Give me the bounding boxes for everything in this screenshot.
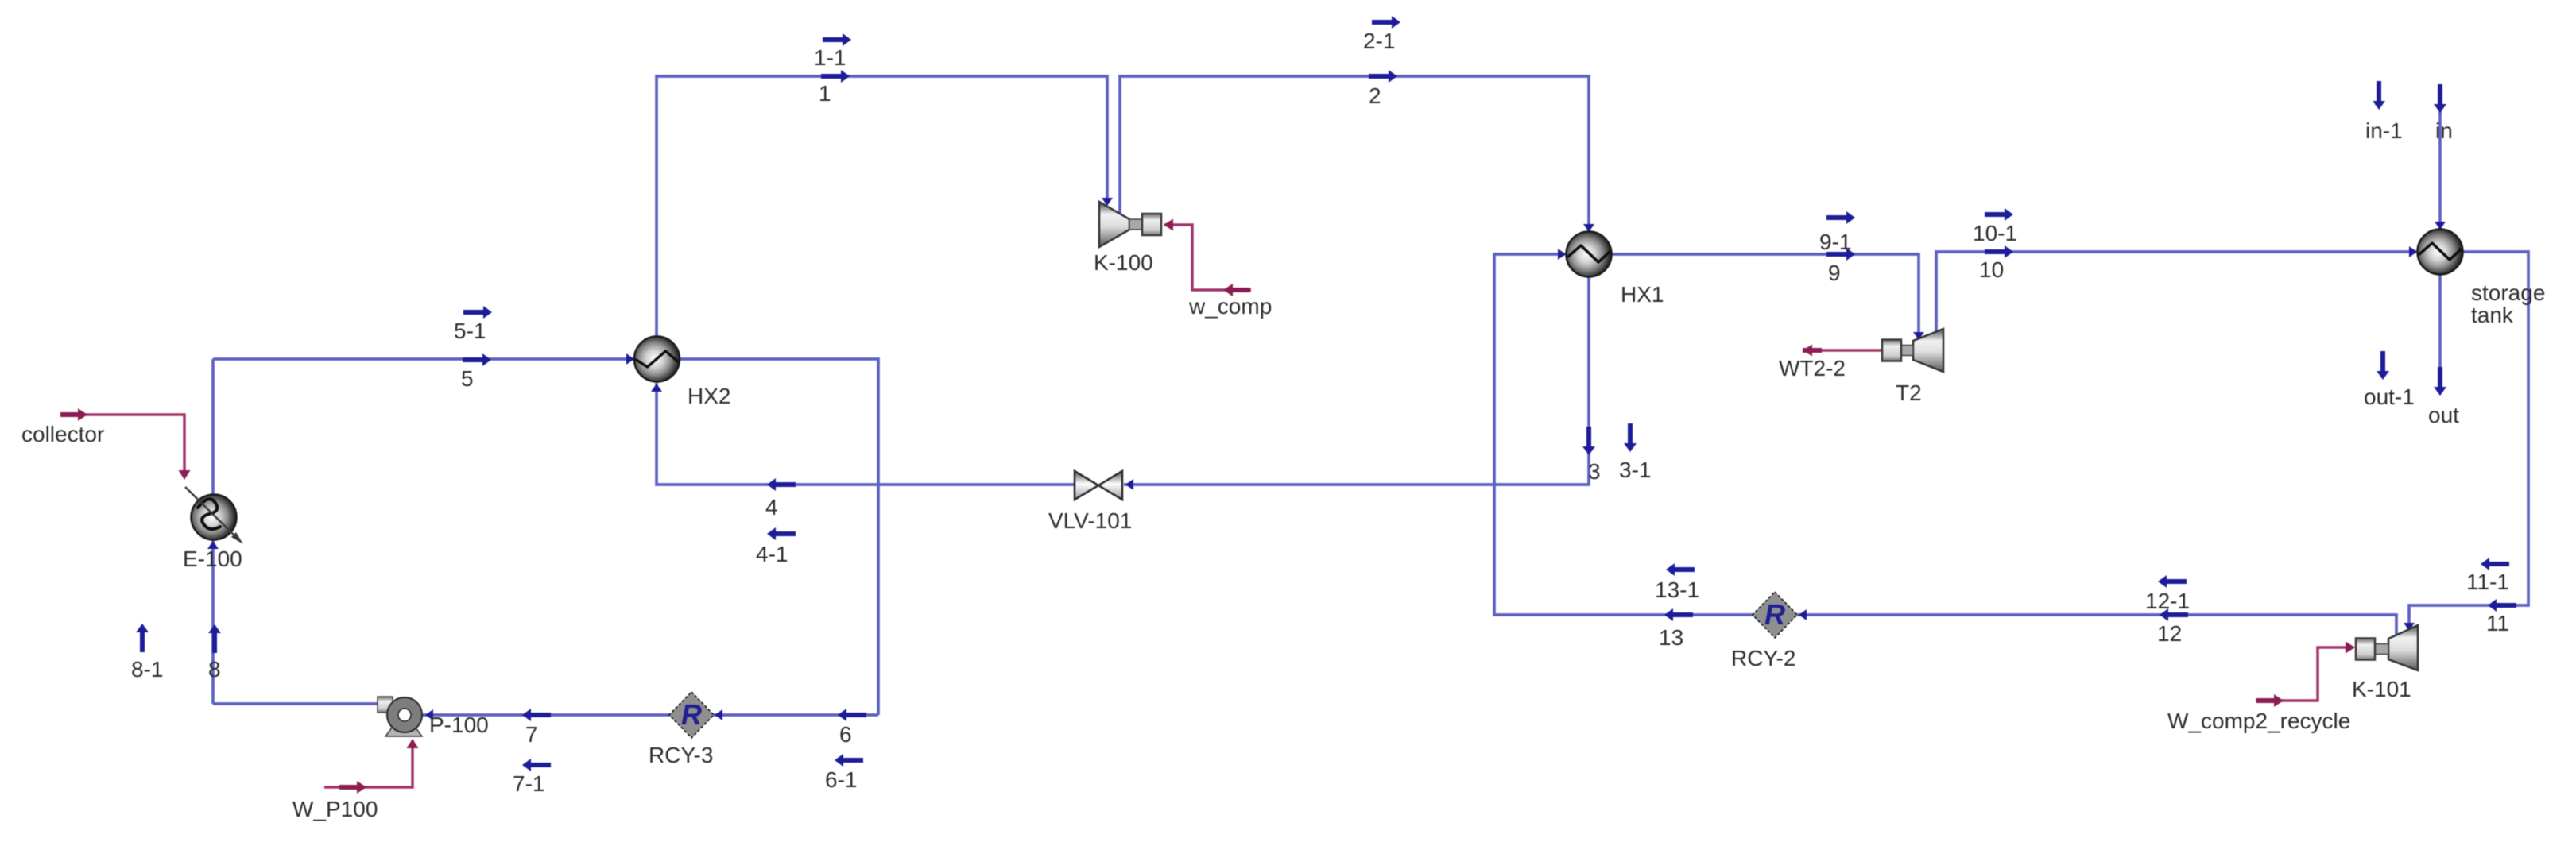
svg-text:11-1: 11-1 <box>2466 570 2509 594</box>
svg-text:P-100: P-100 <box>429 713 489 737</box>
svg-text:3-1: 3-1 <box>1619 458 1651 482</box>
svg-text:13-1: 13-1 <box>1655 578 1699 602</box>
svg-text:storage: storage <box>2471 280 2545 305</box>
svg-text:out: out <box>2428 403 2459 427</box>
svg-text:1-1: 1-1 <box>814 45 846 70</box>
svg-text:10: 10 <box>1979 257 2004 282</box>
svg-text:W_comp2_recycle: W_comp2_recycle <box>2167 709 2350 733</box>
svg-text:WT2-2: WT2-2 <box>1779 356 1846 381</box>
svg-text:2-1: 2-1 <box>1363 29 1395 53</box>
svg-text:K-100: K-100 <box>1094 250 1153 275</box>
svg-text:13: 13 <box>1659 625 1683 650</box>
svg-text:10-1: 10-1 <box>1973 221 2017 245</box>
svg-text:RCY-2: RCY-2 <box>1731 646 1795 670</box>
svg-text:7-1: 7-1 <box>513 771 544 796</box>
svg-text:R: R <box>1764 598 1785 631</box>
svg-text:1: 1 <box>819 81 831 106</box>
svg-text:in: in <box>2435 118 2453 143</box>
svg-text:12-1: 12-1 <box>2145 589 2190 613</box>
svg-text:12: 12 <box>2157 621 2182 646</box>
svg-text:K-101: K-101 <box>2352 677 2411 701</box>
svg-text:6: 6 <box>839 722 852 747</box>
svg-text:4: 4 <box>765 495 778 520</box>
svg-text:HX1: HX1 <box>1621 282 1664 307</box>
svg-text:2: 2 <box>1369 83 1381 108</box>
svg-text:6-1: 6-1 <box>825 767 857 792</box>
svg-text:E-100: E-100 <box>183 547 242 571</box>
svg-text:HX2: HX2 <box>688 384 730 408</box>
svg-text:4-1: 4-1 <box>756 542 788 566</box>
svg-text:RCY-3: RCY-3 <box>649 743 713 767</box>
svg-text:7: 7 <box>525 722 538 747</box>
svg-text:9: 9 <box>1828 261 1841 285</box>
svg-text:out-1: out-1 <box>2364 384 2415 409</box>
svg-text:W_P100: W_P100 <box>292 797 378 821</box>
svg-text:8: 8 <box>208 657 221 682</box>
svg-text:11: 11 <box>2486 611 2509 635</box>
svg-text:R: R <box>681 698 702 731</box>
svg-text:5: 5 <box>461 366 474 391</box>
svg-text:5-1: 5-1 <box>454 319 486 343</box>
svg-text:tank: tank <box>2471 303 2514 327</box>
svg-text:3: 3 <box>1588 459 1601 484</box>
svg-text:VLV-101: VLV-101 <box>1048 508 1132 533</box>
svg-text:in-1: in-1 <box>2365 118 2403 143</box>
svg-text:9-1: 9-1 <box>1819 230 1851 254</box>
svg-text:T2: T2 <box>1896 381 1922 405</box>
svg-text:collector: collector <box>21 422 104 446</box>
svg-text:w_comp: w_comp <box>1188 294 1272 319</box>
svg-text:8-1: 8-1 <box>131 657 163 682</box>
